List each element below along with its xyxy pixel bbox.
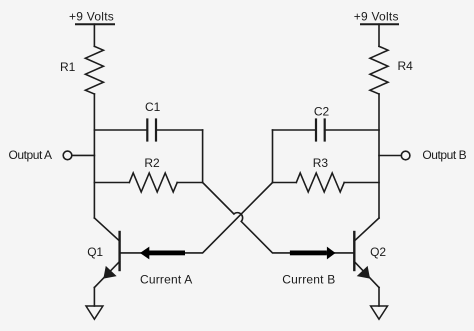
node Output A terminal [63, 151, 72, 160]
+9V supply bar left [76, 23, 114, 25]
wire: cross-coupling diagonal with hop (left loop to Q2 base) [203, 183, 355, 253]
wire: right rail top (supply to R4) [378, 24, 380, 46]
wire: Q2 emitter to ground [378, 288, 380, 307]
node Output B terminal [401, 151, 410, 160]
current arrow B [290, 247, 336, 260]
svg-text:Output B: Output B [422, 148, 466, 162]
wire: left rail top (supply to R1) [93, 24, 95, 46]
wire: C2 branch right [325, 129, 379, 131]
ground (left) [86, 306, 103, 319]
wire: C2 branch left [273, 129, 317, 131]
svg-text:R2: R2 [144, 156, 160, 170]
svg-text:C1: C1 [145, 100, 161, 114]
ground (right) [371, 306, 388, 319]
transistor Q2 [354, 218, 379, 288]
capacitor C1 [147, 120, 156, 141]
wire: Output B stub [379, 155, 401, 157]
svg-text:Current B: Current B [282, 273, 335, 287]
wire: right rail (R4 bottom to Q2 collector) [378, 94, 380, 218]
resistor R2 [129, 173, 177, 192]
svg-text:Output A: Output A [9, 148, 53, 162]
wire: left rail (R1 bottom to Q1 collector) [93, 94, 95, 218]
svg-text:R4: R4 [398, 59, 414, 73]
wire: Output A stub [72, 154, 95, 156]
wire: Q1 emitter to ground [93, 288, 95, 307]
current arrow A [140, 247, 185, 260]
svg-text:+9 Volts: +9 Volts [69, 10, 114, 24]
wire: C1 branch left [94, 129, 147, 131]
svg-text:Current A: Current A [140, 273, 193, 287]
svg-text:C2: C2 [314, 104, 330, 118]
wire: R3 branch left [273, 182, 297, 184]
svg-text:Q2: Q2 [370, 245, 386, 259]
resistor R1 [85, 46, 103, 94]
svg-text:Q1: Q1 [87, 245, 103, 259]
+9V supply bar right [361, 23, 398, 25]
resistor R4 [370, 46, 388, 94]
capacitor C2 [316, 120, 325, 141]
transistor Q1 [94, 218, 119, 288]
svg-text:R1: R1 [60, 60, 76, 74]
wire: right loop left vertical [272, 130, 274, 183]
svg-text:+9 Volts: +9 Volts [354, 10, 399, 24]
wire: cross-coupling diagonal (right loop to Q1 base) [120, 183, 273, 253]
wire: R2 branch left [94, 182, 129, 184]
wire: R3 branch right [344, 182, 379, 184]
svg-text:R3: R3 [313, 156, 329, 170]
resistor R3 [296, 173, 344, 192]
wire: left loop right vertical [202, 130, 204, 183]
wire: R2 branch right [177, 182, 202, 184]
wire: C1 branch right [156, 129, 203, 131]
